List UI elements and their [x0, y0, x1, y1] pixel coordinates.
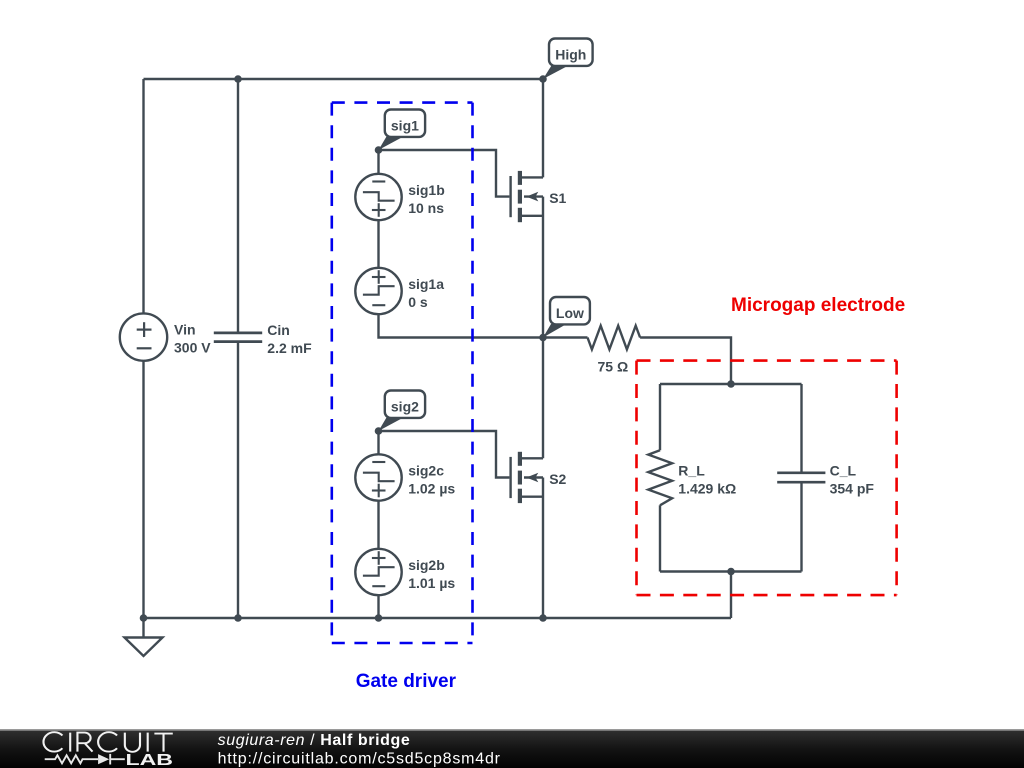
- svg-text:0 s: 0 s: [408, 294, 428, 310]
- svg-text:Low: Low: [556, 305, 584, 321]
- wire sig2c to sig2b: [377, 501, 379, 549]
- voltage source sig2c circle: [355, 454, 401, 500]
- microgap electrode dashed box: [637, 361, 897, 595]
- svg-text:1.02 µs: 1.02 µs: [408, 481, 455, 497]
- wire resistor R1 to microgap corner: [640, 338, 731, 385]
- wire sig1 node to sig1b: [377, 150, 379, 174]
- footer bar: [0, 729, 1024, 768]
- voltage source Vin circle: [120, 313, 167, 360]
- wire sig1 gate wire to S1: [379, 150, 510, 197]
- wire S1 source vertical (S1 to Low node): [542, 197, 544, 338]
- svg-text:354 pF: 354 pF: [830, 481, 875, 497]
- svg-text:1.01 µs: 1.01 µs: [408, 575, 455, 591]
- transistor S1 NMOS symbol: [511, 171, 543, 222]
- label Vin value: [174, 322, 211, 356]
- gate driver dashed box: [332, 103, 473, 643]
- junction microgap bottom: [727, 568, 735, 576]
- svg-text:2.2 mF: 2.2 mF: [267, 340, 312, 356]
- wire R_L lower lead: [659, 505, 661, 571]
- svg-text:R_L: R_L: [678, 463, 705, 479]
- wire C_L lower lead: [800, 482, 802, 571]
- label sig2b value: [408, 557, 455, 591]
- svg-text:sig1: sig1: [391, 118, 419, 134]
- svg-text:75 Ω: 75 Ω: [598, 358, 629, 374]
- wire top rail: [144, 78, 544, 80]
- label Cin value: [267, 322, 312, 356]
- svg-text:S1: S1: [549, 190, 566, 206]
- svg-text:300 V: 300 V: [174, 340, 211, 356]
- label sig1a value: [408, 276, 444, 310]
- wire microgap bottom stem to ground rail: [730, 572, 732, 619]
- wire Cin upper: [237, 79, 239, 333]
- transistor S2 NMOS symbol: [511, 452, 543, 503]
- junction ground rail at sig2b: [375, 614, 383, 622]
- capacitor Cin plates: [214, 333, 262, 342]
- svg-text:LAB: LAB: [126, 752, 174, 768]
- node Low flag: [543, 297, 590, 338]
- junction ground rail at Vin: [140, 614, 148, 622]
- svg-text:sig2: sig2: [391, 399, 419, 415]
- capacitor C_L plates: [777, 473, 825, 482]
- svg-text:1.429 kΩ: 1.429 kΩ: [678, 481, 736, 497]
- label C_L value: [830, 463, 875, 497]
- wire S2 source vertical (S2 to ground rail): [542, 478, 544, 619]
- wire Low node to resistor R1: [543, 336, 588, 338]
- wire S2 drain vertical (Low node to S2): [542, 338, 544, 459]
- svg-text:Cin: Cin: [267, 322, 290, 338]
- junction ground rail at S2 source: [539, 614, 547, 622]
- svg-text:10 ns: 10 ns: [408, 200, 444, 216]
- svg-text:http://circuitlab.com/c5sd5cp8: http://circuitlab.com/c5sd5cp8sm4dr: [218, 751, 501, 768]
- svg-text:Gate driver: Gate driver: [356, 671, 457, 692]
- wire microgap top bus: [660, 383, 802, 385]
- svg-text:Microgap electrode: Microgap electrode: [731, 295, 905, 316]
- wire left vertical lower (Vin to ground rail): [142, 361, 144, 618]
- CircuitLab logo CIRCUIT letters: [43, 732, 172, 752]
- junction Cin top rail: [234, 75, 242, 83]
- ground symbol GND: [125, 618, 163, 656]
- wire C_L upper lead: [800, 384, 802, 473]
- wire R_L upper lead: [659, 384, 661, 450]
- svg-text:sig1a: sig1a: [408, 276, 444, 292]
- junction node High: [539, 75, 547, 83]
- svg-text:C_L: C_L: [830, 463, 857, 479]
- svg-text:sig2c: sig2c: [408, 463, 444, 479]
- wire bottom rail: [144, 617, 732, 619]
- junction node Low: [539, 334, 547, 342]
- node sig2 flag: [379, 391, 426, 432]
- svg-text:High: High: [555, 47, 586, 63]
- wire Cin lower: [237, 342, 239, 618]
- voltage source sig1b circle: [355, 174, 401, 220]
- svg-text:S2: S2: [549, 471, 566, 487]
- svg-text:sig2b: sig2b: [408, 557, 445, 573]
- svg-text:sugiura-ren / Half bridge: sugiura-ren / Half bridge: [218, 732, 411, 749]
- voltage source sig2b circle: [355, 549, 401, 595]
- svg-text:Vin: Vin: [174, 322, 196, 338]
- wire sig1a to Low row: [379, 314, 544, 337]
- label R_L value: [678, 463, 736, 497]
- junction node sig2: [375, 427, 383, 435]
- junction ground rail at Cin: [234, 614, 242, 622]
- wire S1 drain vertical (High node to S1): [542, 79, 544, 177]
- voltage source sig1a circle: [355, 268, 401, 314]
- svg-text:sig1b: sig1b: [408, 182, 445, 198]
- node High flag: [543, 39, 593, 80]
- resistor R1 75ohm zigzag: [588, 326, 641, 350]
- node sig1 flag: [379, 110, 426, 151]
- wire sig2 node to sig2c: [377, 431, 379, 454]
- junction node sig1: [375, 146, 383, 154]
- logo resistor-diode glyph: [45, 754, 125, 765]
- wire microgap bottom bus: [660, 570, 802, 572]
- resistor R_L zigzag: [648, 450, 672, 505]
- wire left vertical upper (Vin to top rail): [142, 79, 144, 313]
- wire sig2b to ground rail: [377, 595, 379, 618]
- label sig2c value: [408, 463, 455, 497]
- junction microgap top: [727, 380, 735, 388]
- wire sig1b to sig1a: [377, 220, 379, 268]
- label sig1b value: [408, 182, 445, 216]
- wire sig2 gate wire to S2: [379, 431, 510, 478]
